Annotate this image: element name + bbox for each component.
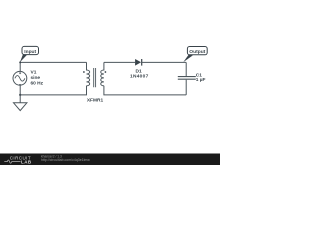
capacitor C1	[178, 62, 196, 95]
svg-text:60 Hz: 60 Hz	[31, 81, 44, 87]
label V1 value text	[31, 70, 44, 87]
ground	[14, 95, 27, 111]
watermark footer bar	[0, 154, 220, 166]
node ground junction	[19, 94, 21, 96]
diode D1	[135, 59, 142, 66]
svg-text:XFMR1: XFMR1	[87, 97, 104, 103]
svg-text:1N4007: 1N4007	[130, 74, 149, 80]
svg-text:Output: Output	[189, 49, 205, 55]
wire diode cathode to output node	[142, 61, 187, 63]
transformer XFMR1 primary winding	[87, 62, 90, 85]
svg-text:Input: Input	[24, 49, 36, 55]
svg-text:D1: D1	[136, 69, 142, 75]
svg-text:http://circuitlab.com/c4q3e1lm: http://circuitlab.com/c4q3e1lmw	[41, 158, 90, 162]
node Input junction	[19, 61, 21, 63]
wire top-left net: source top to transformer primary	[20, 62, 86, 71]
transformer phasing dot secondary	[105, 71, 107, 73]
node label Output	[183, 47, 207, 63]
wire primary bottom return	[20, 86, 86, 95]
transformer core	[94, 68, 96, 87]
wire secondary top to diode anode	[104, 61, 135, 63]
svg-text:V1: V1	[31, 70, 37, 76]
watermark CircuitLab logo	[4, 156, 32, 165]
voltage source V1	[13, 71, 27, 85]
label D1	[130, 69, 149, 80]
watermark credit text	[41, 154, 90, 162]
wire source bottom to ground junction	[19, 85, 21, 95]
wire secondary bottom return	[104, 86, 186, 95]
svg-text:sine: sine	[31, 75, 41, 81]
transformer XFMR1 secondary winding	[101, 62, 104, 85]
transformer phasing dot primary	[83, 71, 85, 73]
svg-text:LAB: LAB	[21, 159, 32, 164]
node label Input	[20, 46, 39, 62]
svg-text:1 µF: 1 µF	[196, 77, 206, 83]
label C1 value	[196, 72, 206, 83]
